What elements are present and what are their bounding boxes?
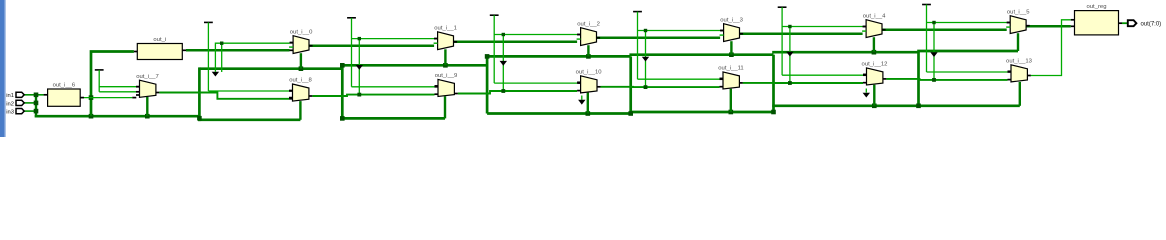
tap vertical c4 (789, 27, 791, 84)
pin stub out_reg D (1071, 25, 1075, 27)
mux out_i__12 (862, 62, 888, 86)
wire out_i output to out_i__0 slant (186, 49, 290, 52)
tap vertical c2 (502, 35, 504, 92)
pin stub out_i__7 slant pin (132, 97, 136, 99)
wire staircase S4 (772, 51, 918, 54)
wire staircase S3 (629, 53, 773, 56)
net stub T c3 (633, 11, 642, 13)
tap vertical c1 with arrow (358, 39, 360, 95)
wire out_i__9 output jog to out_i__10 (454, 93, 458, 95)
wire out_i__7 carry drop (146, 97, 148, 116)
net stub T c5 (922, 4, 931, 6)
wire to out_i__2 in1 (494, 34, 577, 36)
wire out_i__8 carry drop (299, 101, 301, 120)
svg-text:out(7:0): out(7:0) (1141, 22, 1162, 28)
net stub T c4 (778, 6, 787, 8)
wire out_i__10 output jog to out_i__11 (597, 86, 601, 88)
svg-text:out_i__5: out_i__5 (1007, 9, 1030, 15)
wire out_i__3 carry drop (730, 41, 732, 55)
wire out_i__12 carry drop (873, 85, 875, 106)
wire feedback vertical to out_i input (91, 52, 134, 117)
wire out_i__13 carry rise (1019, 82, 1021, 106)
net stub T c1 (347, 17, 356, 19)
tap vertical c5 (933, 23, 935, 80)
port in3 (6, 109, 24, 116)
wire out_i__3 to out_i__4 (740, 32, 863, 35)
wire out_i__11 output jog to out_i__12 (739, 82, 743, 84)
tap vertical c0 with arrow (221, 43, 223, 72)
tap vertical c3 (645, 31, 647, 88)
wire out_i__11 carry drop (730, 89, 732, 112)
svg-text:out_i__1: out_i__1 (434, 25, 457, 31)
wire to out_i__5 in1 (927, 22, 1007, 24)
wire in3 port (24, 110, 36, 112)
port in1 (6, 92, 24, 99)
mux out_i__0 (289, 29, 313, 53)
wire out_i__0 to out_i__1 (309, 44, 434, 47)
wire to out_i__8 in1 (208, 90, 289, 92)
wire out_i__2 carry drop (587, 45, 589, 56)
wire bus B0 from input ports (35, 115, 200, 118)
mux out_i__7 (136, 74, 159, 98)
port out(7:0) (1128, 20, 1161, 28)
svg-text:in2: in2 (6, 101, 14, 107)
mux out_i__8 (289, 78, 313, 102)
wire bottom staircase seg1 (487, 112, 631, 115)
wire input ports vertical (35, 95, 37, 118)
net stub T c2 (490, 14, 499, 16)
mux out_i__10 (576, 69, 603, 93)
svg-text:out_i__8: out_i__8 (289, 78, 312, 84)
wire to out_i__4 in1 (782, 26, 863, 28)
svg-text:out_reg: out_reg (1087, 4, 1107, 10)
svg-text:out_i__0: out_i__0 (290, 29, 313, 35)
mux out_i__9 (435, 73, 458, 97)
svg-text:out_i__7: out_i__7 (136, 74, 159, 80)
wire staircase S2 (486, 55, 631, 58)
wire out_i__10 carry drop (587, 93, 589, 114)
net stub T for out_i__7 (95, 69, 104, 71)
svg-text:out_i__12: out_i__12 (862, 62, 888, 68)
wire dive vertical c4 (917, 51, 920, 106)
pin stub out_reg C (1071, 19, 1075, 21)
svg-text:in3: in3 (6, 110, 14, 116)
wire to out_i__10 in1 (494, 82, 577, 84)
wire out_i__2 to out_i__3 (597, 36, 721, 39)
window edge blue bar (0, 0, 5, 137)
wire out_i__5 to out_reg D (1026, 25, 1071, 28)
wire to out_i__1 in1 (352, 38, 435, 40)
wire out_i__1 carry drop (444, 49, 446, 65)
mux out_i__13 (1006, 58, 1033, 82)
wire bottom staircase seg2 (629, 111, 773, 114)
wire dive vertical c2 (629, 56, 632, 113)
wire corner to out_i__0 in1 (215, 43, 289, 46)
svg-text:out_i__2: out_i__2 (577, 21, 600, 27)
wire out_i__7 output jog to out_i__8 in3 (156, 92, 160, 94)
svg-text:out_i__6: out_i__6 (53, 83, 76, 89)
net stub T c0 (204, 21, 213, 23)
wire out_i__12 output jog to out_i__13 (883, 78, 887, 80)
wire dive vertical c1 (486, 56, 489, 113)
wire staircase S1 (341, 64, 487, 67)
wire dive vertical c3 (772, 55, 775, 112)
wire in1 port to out_i__6 (24, 94, 44, 96)
arrow at out_i__12 carry (865, 89, 867, 93)
port in2 (6, 100, 24, 107)
svg-text:out_i__11: out_i__11 (718, 66, 743, 72)
junction dots bus and staircase (89, 114, 94, 119)
wire bus B1 (198, 118, 300, 121)
svg-text:in1: in1 (6, 93, 14, 99)
arrow at out_i__10 carry (581, 96, 583, 100)
mux out_i__3 (720, 17, 744, 41)
wire to out_i__7 in1 (99, 86, 136, 88)
wire in2 port (24, 102, 36, 104)
wire out_i__6 output to out_i__7 slant (84, 97, 132, 99)
mux out_i__5 (1006, 9, 1030, 33)
component out_i__6 (48, 83, 81, 107)
pin stub out_i__6 input (44, 94, 48, 96)
mux out_i__11 (718, 66, 743, 90)
mux out_i__2 (577, 21, 601, 45)
wire bus step vertical (198, 67, 201, 121)
wire out_reg Q to out port (1122, 22, 1128, 24)
wire out_i__1 to out_i__2 (454, 41, 578, 44)
svg-text:out_i__3: out_i__3 (720, 17, 743, 23)
mux out_i__4 (862, 13, 886, 37)
wire to out_i__13 in1 (927, 71, 1008, 73)
wire out_i__5 carry rise (1017, 33, 1019, 51)
svg-text:out_i__13: out_i__13 (1006, 58, 1033, 64)
wire bottom U segment (342, 117, 445, 120)
wire to out_i__9 in1 (352, 86, 435, 88)
pin stub out_i__6 output (80, 97, 84, 99)
wire to out_i__3 in1 (638, 30, 721, 32)
wire staircase S5 (917, 50, 1018, 53)
component out_i (137, 37, 182, 59)
wire out_i__8 output jog to out_i__9 (309, 95, 313, 97)
component out_reg (1075, 4, 1119, 35)
wire out_i__4 carry drop (873, 37, 875, 52)
pin stub out_i__8 in2 (289, 97, 293, 99)
wire out_i__13 output to out_reg C (1027, 75, 1031, 77)
wire out_i__4 to out_i__5 (882, 28, 1007, 31)
wire bottom staircase seg3 (772, 104, 1020, 107)
pin stub out_i input (134, 51, 137, 53)
mux out_i__1 (434, 25, 458, 49)
wire out_i__9 carry drop (444, 96, 446, 118)
wire dive vertical c0 (341, 65, 344, 119)
wire to out_i__11 in1 (638, 78, 720, 80)
wire to out_i__12 in1 (782, 74, 863, 76)
pin stub out_reg Q (1119, 22, 1123, 24)
wire staircase S0 (199, 67, 342, 70)
svg-text:out_i__10: out_i__10 (576, 69, 603, 75)
svg-text:out_i__9: out_i__9 (435, 73, 458, 79)
svg-text:out_i__4: out_i__4 (863, 13, 886, 19)
wire out_i__0 carry drop (300, 53, 302, 68)
svg-text:out_i: out_i (153, 37, 166, 43)
wire to out_i__7 in2 (99, 91, 136, 93)
